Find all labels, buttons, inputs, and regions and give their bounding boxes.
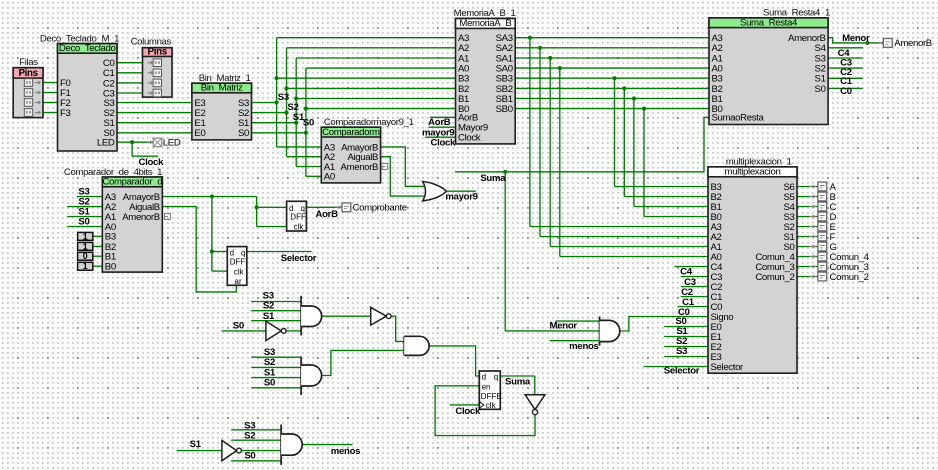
svg-text:S0: S0 <box>78 217 89 228</box>
svg-text:S1: S1 <box>263 311 275 322</box>
or-gate U3 mayor9 <box>423 182 447 202</box>
svg-text:multiplexacion_1: multiplexacion_1 <box>726 157 792 168</box>
wire S2 stub to AND1 <box>251 310 301 312</box>
wire S3 net stub into multiplexacion E3 <box>664 356 708 358</box>
block Comparador_de_4bits_1 <box>64 167 162 273</box>
svg-text:menos: menos <box>569 341 598 352</box>
svg-text:S1: S1 <box>190 439 202 450</box>
svg-text:SumaoResta: SumaoResta <box>712 113 765 124</box>
svg-text:C0: C0 <box>840 86 852 97</box>
wire Menor stub to AND5 <box>555 320 599 322</box>
wire multiplexacion output 7 stub <box>797 256 819 258</box>
net label C3 <box>684 277 696 288</box>
output terminal C <box>810 202 837 213</box>
svg-text:menos: menos <box>331 446 360 457</box>
block Suma_Resta4_1 <box>709 8 830 125</box>
net label S2 <box>287 102 298 113</box>
svg-text:Comun_2: Comun_2 <box>830 272 869 283</box>
wire S0 stub to AND4 <box>231 460 281 462</box>
net label S0 <box>303 118 314 129</box>
svg-text:Suma: Suma <box>505 376 531 387</box>
wire S0 stub to AND3 <box>251 387 301 389</box>
wire NOT2 out to AND2 <box>391 316 404 341</box>
wire S2 net stub into Comparador_de_4bits A2 <box>67 206 102 208</box>
svg-text:Filas: Filas <box>19 57 38 68</box>
wire AigualB net: Comparador_de_4bits AigualB to DFF ar pin <box>162 207 236 292</box>
wire SA1 net: MemoriaA_B SA1 to Suma_Resta4 A1 and multiplexacion A1 <box>515 56 709 247</box>
block MemoriaA_B_1 <box>454 8 516 144</box>
output terminal Comun_2 <box>810 272 869 283</box>
wire S3 stub to AND3 <box>251 356 301 358</box>
svg-text:Deco_Teclado: Deco_Teclado <box>59 43 116 54</box>
and-gate AND2 <box>404 336 429 355</box>
inverter NOT4 <box>222 440 242 460</box>
and-gate AND3 <box>301 357 322 396</box>
svg-text:Menor: Menor <box>550 321 578 332</box>
net label C0 <box>840 86 852 97</box>
net label Clock <box>139 157 165 168</box>
svg-text:S3: S3 <box>676 346 687 357</box>
net label C1 <box>840 76 853 87</box>
net label S1 <box>293 112 305 123</box>
unconnected pin marker Comparador_de_4bits AmenorB <box>164 214 170 220</box>
block Filas (Pins) <box>13 57 43 117</box>
wire Clock stub into MemoriaA_B <box>425 136 455 138</box>
wire constant to Comparador_de_4bits B2 <box>93 245 103 247</box>
output terminal A <box>810 182 837 193</box>
svg-text:S3: S3 <box>263 290 274 301</box>
svg-text:Comprobante: Comprobante <box>353 203 407 214</box>
net label AmenorB <box>894 38 932 49</box>
net label S0 <box>675 316 686 327</box>
svg-text:SB0: SB0 <box>496 104 513 115</box>
block Comparadormayor9_1 <box>321 117 413 183</box>
svg-text:d: d <box>230 248 234 257</box>
svg-text:S0: S0 <box>233 320 244 331</box>
wire C2 net stub from Suma_Resta4 S2 <box>828 67 863 69</box>
wire C1 net stub from Suma_Resta4 S1 <box>828 77 863 79</box>
wire S1 stub to AND1 <box>251 320 301 322</box>
svg-text:Selector: Selector <box>711 362 745 373</box>
net label Clock <box>430 137 456 148</box>
and-gate AND5 Menor/menos <box>600 317 620 346</box>
wire S3 stub to AND4 <box>231 429 281 431</box>
block multiplexacion_1 <box>708 157 797 374</box>
svg-text:S0: S0 <box>238 128 249 139</box>
wire mayor9 net stub from OR gate output <box>446 190 475 192</box>
net label S2 <box>676 336 687 347</box>
svg-text:Comparador_de_4bits_1: Comparador_de_4bits_1 <box>64 167 162 178</box>
wire S3 net: Bin_Matriz output, vertical trunk, branches to MemoriaA_B A3/B3 and Comparadorm A3 <box>252 38 456 147</box>
net label Comprobante <box>353 203 407 214</box>
output terminal B <box>810 192 836 203</box>
wire multiplexacion output 0 stub <box>797 186 819 188</box>
svg-text:1: 1 <box>83 241 88 251</box>
wire C4 net stub into multiplexacion <box>674 266 708 268</box>
net label C4 <box>680 267 693 278</box>
net label C0 <box>678 307 690 318</box>
svg-text:S0: S0 <box>264 378 275 389</box>
flip-flop DFF U2 with ar <box>227 247 247 286</box>
svg-text:Selector: Selector <box>664 365 700 376</box>
wire NOT3 out feedback to DFFE en <box>435 386 535 436</box>
net label C2 <box>840 67 852 78</box>
wire S0 net stub into Comparador_de_4bits A0 <box>67 226 102 228</box>
wire AND2 out to DFFE d <box>429 346 479 376</box>
net label S3 <box>78 187 89 198</box>
svg-text:clk: clk <box>486 401 497 410</box>
net label Selector <box>281 253 317 264</box>
wire SB3 net: MemoriaA_B SB3 to Suma_Resta4 B3 and multiplexacion B3 <box>515 76 709 186</box>
wire multiplexacion output 9 stub <box>797 276 819 278</box>
svg-text:Menor: Menor <box>842 33 870 44</box>
svg-text:mayor9: mayor9 <box>445 191 477 202</box>
svg-text:A0: A0 <box>324 172 335 183</box>
wire S0 net stub into multiplexacion E0 <box>664 326 708 328</box>
wire S1 stub to AND3 <box>251 377 301 379</box>
wire multiplexacion output 8 stub <box>797 266 819 268</box>
svg-text:Columnas: Columnas <box>131 37 172 48</box>
svg-text:AmenorB: AmenorB <box>341 162 379 173</box>
wire AorB stub into MemoriaA_B <box>430 116 456 118</box>
wire S2 net: Deco to Bin_Matriz E2 <box>117 112 192 114</box>
wire S2 net: Bin_Matriz output, vertical trunk, branches to MemoriaA_B A2/B2 and Comparadorm A2 <box>252 48 456 157</box>
svg-text:Deco_Teclado_M_1: Deco_Teclado_M_1 <box>40 33 119 44</box>
svg-text:S2: S2 <box>244 431 255 442</box>
wire multiplexacion output 6 stub <box>797 246 819 248</box>
svg-text:MemoriaA_B: MemoriaA_B <box>459 18 511 29</box>
wire S0 net: Bin_Matriz output, vertical trunk, branches to MemoriaA_B A0/B0 and Comparadorm A0 <box>252 68 456 176</box>
wire multiplexacion output 4 stub <box>797 226 819 228</box>
svg-text:Suma_Resta4_1: Suma_Resta4_1 <box>763 8 830 19</box>
net label S1 <box>190 439 202 450</box>
svg-text:DFF: DFF <box>230 258 246 267</box>
wire multiplexacion output 3 stub <box>797 216 819 218</box>
svg-text:Pins: Pins <box>18 68 38 79</box>
Comprobante terminal <box>336 203 351 212</box>
net label S1 <box>264 367 276 378</box>
net label Suma <box>480 173 506 184</box>
svg-text:Clock: Clock <box>430 137 456 148</box>
wire S3 stub to AND1 <box>251 301 301 303</box>
svg-text:S0: S0 <box>815 84 826 95</box>
net label S2 <box>264 357 275 368</box>
wire multiplexacion output 1 stub <box>797 196 819 198</box>
wire C0 net stub into multiplexacion <box>678 306 708 308</box>
net label S2 <box>78 197 89 208</box>
inverter NOT2 <box>371 307 391 325</box>
net label S2 <box>263 301 274 312</box>
wire S0 net: Deco to Bin_Matriz E0 <box>117 132 192 134</box>
net label S0 <box>244 451 255 462</box>
wire S1 stub to NOT4 <box>177 450 222 452</box>
net label S3 <box>263 290 274 301</box>
wire menos net stub from AND4 output <box>302 444 352 446</box>
svg-text:Selector: Selector <box>281 253 317 264</box>
svg-text:Comparador_d: Comparador_d <box>102 177 162 188</box>
svg-text:F3: F3 <box>60 108 71 119</box>
constant 1 into B0 <box>78 261 93 271</box>
AmenorB output terminal <box>879 39 893 48</box>
wire Signo net: AND5 output to multiplexacion Signo <box>620 317 708 332</box>
output terminal E <box>810 222 836 233</box>
svg-text:clk: clk <box>294 222 305 231</box>
net label C2 <box>681 287 693 298</box>
net label Menor <box>550 321 578 332</box>
wire SB2 net: MemoriaA_B SB2 to Suma_Resta4 B2 and multiplexacion B2 <box>515 86 709 196</box>
wire Selector net stub into multiplexacion <box>644 366 708 368</box>
svg-text:AmenorB: AmenorB <box>894 38 932 49</box>
svg-text:ar: ar <box>235 277 242 286</box>
net label S0 <box>78 217 89 228</box>
wire LED net with Clock branch <box>117 140 158 156</box>
unconnected pin marker Comparadormayor9 AmenorB <box>382 164 388 170</box>
inverter NOT1 <box>266 321 286 340</box>
net label LED <box>163 138 181 149</box>
wire C2 net stub into multiplexacion <box>681 286 708 288</box>
wire constant to Comparador_de_4bits B1 <box>93 255 103 257</box>
wire Suma net: horizontal run, to Suma_Resta4 SumaoResta and down to AND gate input <box>455 117 709 331</box>
net label S3 <box>676 346 687 357</box>
svg-text:AorB: AorB <box>315 209 338 220</box>
net label S1 <box>78 207 90 218</box>
wire C0-C3 nets: Deco_Teclado to Columnas pins <box>117 63 147 93</box>
wire C1 net stub into multiplexacion <box>681 296 708 298</box>
constant 1 into B2 <box>78 241 93 251</box>
wire SA2 net: MemoriaA_B SA2 to Suma_Resta4 A2 and multiplexacion A2 <box>515 46 709 237</box>
wire S0 stub to NOT1 <box>222 330 266 332</box>
wire S1 net: Deco to Bin_Matriz E1 <box>117 122 192 124</box>
wire C4 net stub from Suma_Resta4 S4 <box>828 47 863 49</box>
output terminal F <box>810 232 836 243</box>
svg-text:Bin_Matriz: Bin_Matriz <box>201 83 243 94</box>
LED terminal <box>147 138 162 146</box>
wire C0 net stub from Suma_Resta4 S0 <box>828 87 863 89</box>
and-gate AND4 menos <box>281 425 302 465</box>
svg-text:clk: clk <box>234 268 245 277</box>
svg-text:S0: S0 <box>303 118 314 129</box>
constant 0 into B1 <box>78 251 93 261</box>
wire S2 net stub into multiplexacion E2 <box>664 346 708 348</box>
svg-text:Comparadormayor9_1: Comparadormayor9_1 <box>324 117 414 128</box>
svg-text:MemoriaA_B_1: MemoriaA_B_1 <box>454 8 516 19</box>
wire menos stub to AND5 <box>550 340 600 342</box>
block Bin_Matriz_1 <box>192 73 252 140</box>
inverter NOT3 (pointing down) <box>525 395 545 415</box>
wire S1 net stub into Comparador_de_4bits A1 <box>67 216 102 218</box>
net label Selector <box>664 365 700 376</box>
output terminal D <box>810 212 837 223</box>
wire Menor net: Suma_Resta4 AmenorB output to AmenorB terminal <box>828 38 883 45</box>
wire AND3 out to AND2 <box>322 350 405 375</box>
net label menos <box>569 341 598 352</box>
net label menos <box>331 446 360 457</box>
wire C3 net stub from Suma_Resta4 S3 <box>828 57 863 59</box>
wire constant to Comparador_de_4bits B0 <box>93 265 103 267</box>
wire AorB net: DFF U1 q to Comprobante terminal <box>306 206 342 208</box>
wire Clock stub to DFFE clk <box>450 404 479 406</box>
net label S3 <box>244 421 255 432</box>
wire AmayorB net: Comparador_de_4bits AmayorB to DFF clk/d pins <box>162 194 286 271</box>
flip-flop DFF U1 <box>287 201 307 231</box>
svg-text:DFF: DFF <box>290 212 306 221</box>
net label S3 <box>278 92 289 103</box>
svg-text:Comun_2: Comun_2 <box>755 272 794 283</box>
wire Selector net stub from DFF U2 q <box>247 251 312 253</box>
net label mayor9 <box>422 127 454 138</box>
svg-text:DFFE: DFFE <box>481 392 502 401</box>
net label AorB <box>428 117 451 128</box>
net label S0 <box>264 378 275 389</box>
svg-text:Comparadorm: Comparadorm <box>322 127 380 138</box>
wire S2 stub to AND3 <box>251 366 301 368</box>
svg-text:Clock: Clock <box>455 406 481 417</box>
wire constant to Comparador_de_4bits B3 <box>93 235 103 237</box>
net label S1 <box>263 311 275 322</box>
net label S3 <box>264 347 275 358</box>
svg-text:0: 0 <box>83 251 88 261</box>
svg-text:LED: LED <box>97 138 115 149</box>
net label Menor <box>842 33 870 44</box>
wire S1 net stub into multiplexacion E1 <box>664 336 708 338</box>
flip-flop DFFE U4 <box>479 371 501 410</box>
wire SB0 net: MemoriaA_B SB0 to Suma_Resta4 B0 and multiplexacion B0 <box>515 107 709 217</box>
svg-text:Bin_Matriz_1: Bin_Matriz_1 <box>199 73 251 84</box>
output terminal Comun_3 <box>810 262 869 273</box>
output terminal G <box>810 242 837 253</box>
wire S3 net: Deco to Bin_Matriz E3 <box>117 102 192 104</box>
net label Clock <box>455 406 481 417</box>
net label Suma <box>505 376 531 387</box>
constant 1 into B3 <box>78 231 93 241</box>
wire SA0 net: MemoriaA_B SA0 to Suma_Resta4 A0 and multiplexacion A0 <box>515 66 709 257</box>
svg-text:en: en <box>482 382 491 391</box>
wire Suma net: DFFE q to NOT3 <box>500 376 535 395</box>
svg-text:AmenorB: AmenorB <box>122 212 160 223</box>
wire C3 net stub into multiplexacion <box>681 276 708 278</box>
svg-text:Suma_Resta4: Suma_Resta4 <box>740 17 798 28</box>
block Columnas (Pins) <box>131 37 172 98</box>
net label AorB <box>315 209 338 220</box>
wire Comparadorm AmayorB to OR gate input 1 <box>381 147 424 186</box>
wire S1 net: Bin_Matriz output, vertical trunk, branches to MemoriaA_B A1/B1 and Comparadorm A1 <box>252 58 456 167</box>
svg-text:Clock: Clock <box>458 133 481 144</box>
wire NOT1 out to AND1 <box>286 330 301 332</box>
svg-text:q: q <box>494 373 498 382</box>
net label C3 <box>840 57 852 68</box>
net label S0 <box>233 320 244 331</box>
wire S3 net stub into Comparador_de_4bits A3 <box>77 196 103 198</box>
wire F0-F3 nets: Filas pins to Deco_Teclado <box>42 83 58 113</box>
net label C1 <box>682 297 695 308</box>
svg-text:1: 1 <box>83 261 88 271</box>
net label mayor9 <box>445 191 477 202</box>
svg-text:Clock: Clock <box>139 157 165 168</box>
svg-text:S0: S0 <box>244 451 255 462</box>
wire multiplexacion output 2 stub <box>797 206 819 208</box>
net label S1 <box>676 326 688 337</box>
wire SA3 net: MemoriaA_B SA3 to Suma_Resta4 A3 and multiplexacion A3 <box>515 36 709 227</box>
svg-text:B0: B0 <box>105 262 116 273</box>
block Deco_Teclado_M_1 <box>40 33 119 151</box>
wire NOT4 out to AND4 <box>241 450 281 452</box>
wire S2 stub to AND4 <box>231 439 281 441</box>
svg-text:d: d <box>482 373 486 382</box>
output terminal Comun_4 <box>810 252 870 263</box>
net label C4 <box>838 48 851 59</box>
wire SB1 net: MemoriaA_B SB1 to Suma_Resta4 B1 and multiplexacion B1 <box>515 96 709 206</box>
wire AND1 out to NOT2 <box>322 315 371 317</box>
svg-text:1: 1 <box>83 231 88 241</box>
wire multiplexacion output 5 stub <box>797 236 819 238</box>
svg-text:E0: E0 <box>194 128 205 139</box>
net label S2 <box>244 431 255 442</box>
svg-text:Pins: Pins <box>148 46 168 57</box>
svg-text:q: q <box>241 248 245 257</box>
and-gate AND1 <box>301 296 322 336</box>
svg-text:Suma: Suma <box>480 173 506 184</box>
svg-text:LED: LED <box>163 138 181 149</box>
svg-text:multiplexacion: multiplexacion <box>725 167 781 178</box>
wire Comparadorm AigualB to OR gate input 2 <box>381 157 424 196</box>
wire mayor9 stub into MemoriaA_B <box>429 126 456 128</box>
